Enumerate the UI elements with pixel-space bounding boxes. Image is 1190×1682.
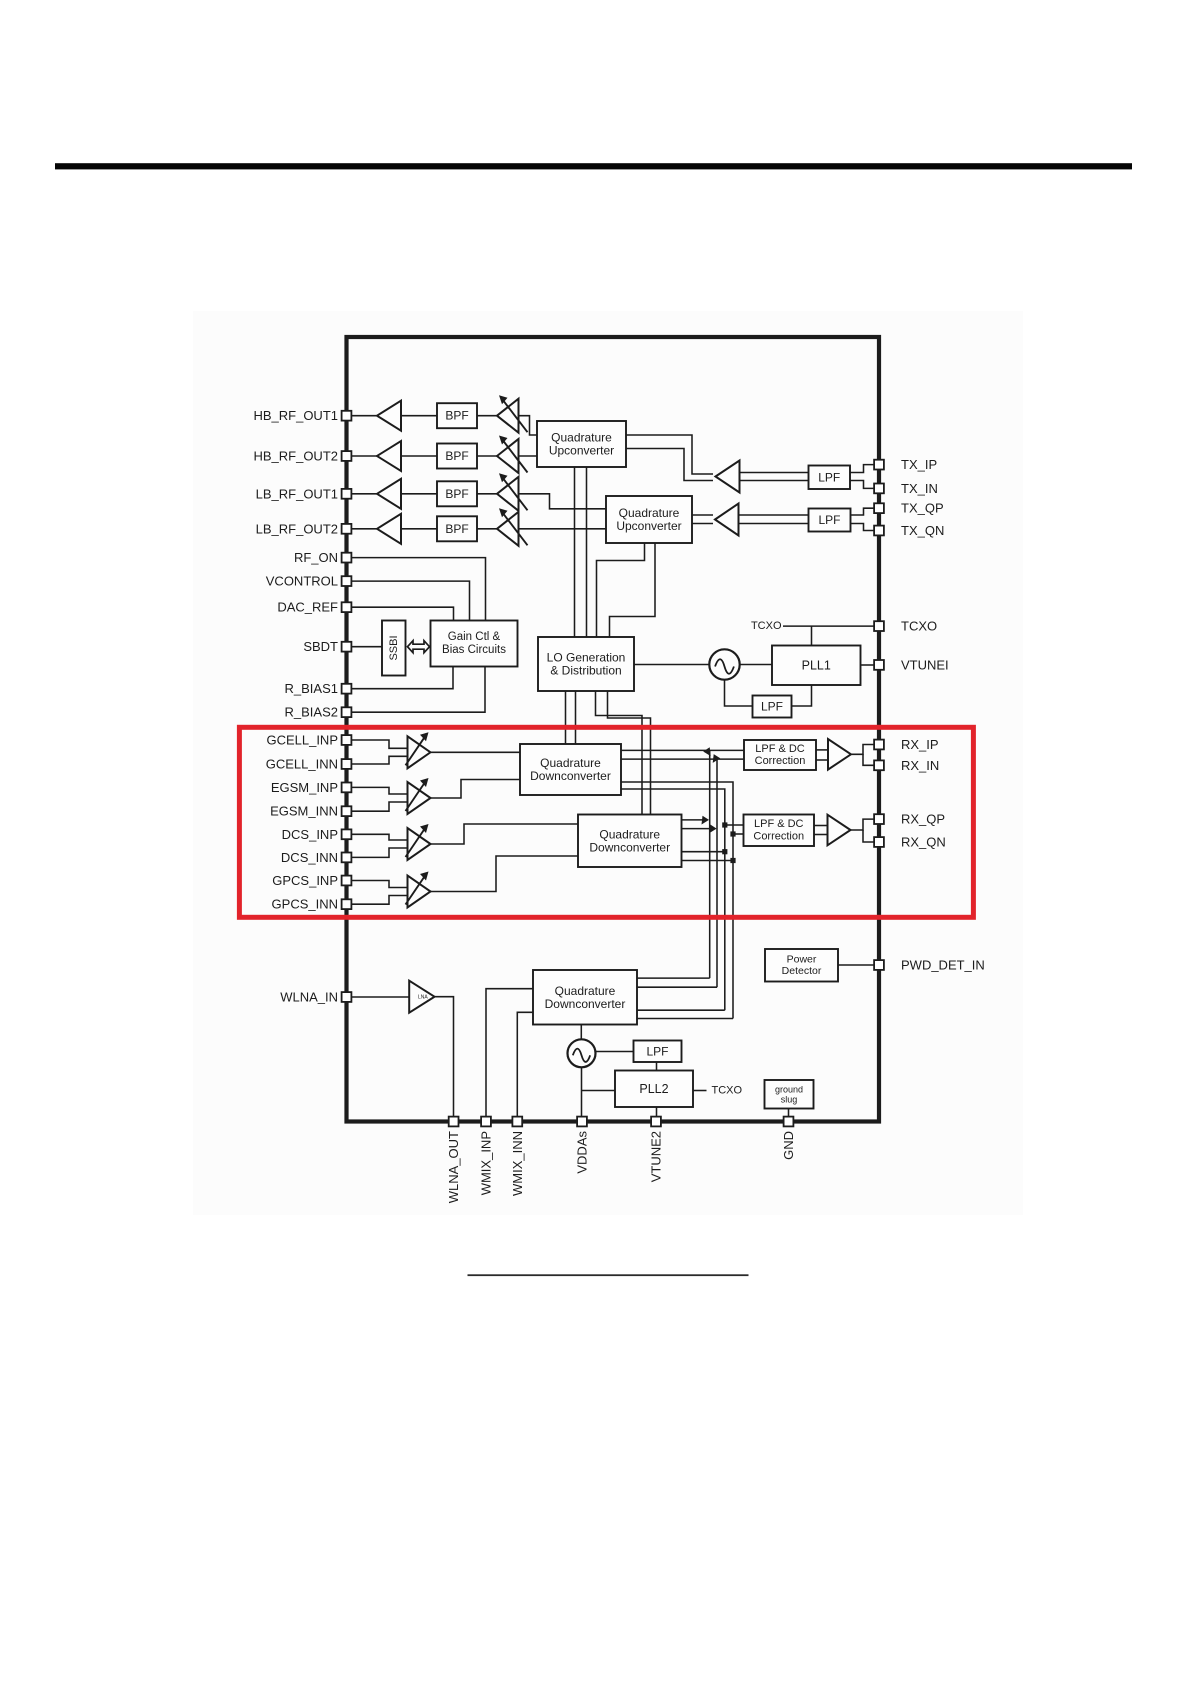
PA amplifier HB_RF_OUT2 bbox=[377, 441, 401, 471]
svg-text:Quadrature: Quadrature bbox=[555, 984, 616, 998]
svg-text:GPCS_INN: GPCS_INN bbox=[272, 897, 338, 912]
variable gain amp HB_RF_OUT2 bbox=[497, 436, 528, 474]
PA amplifier LB_RF_OUT1 bbox=[377, 479, 401, 509]
svg-text:Downconverter: Downconverter bbox=[530, 769, 611, 783]
svg-text:Downconverter: Downconverter bbox=[589, 840, 670, 854]
wire VCO2 to VDDAs pin line bbox=[581, 1068, 583, 1120]
wire R_BIAS2 to gain block bbox=[347, 667, 486, 713]
svg-text:BPF: BPF bbox=[445, 449, 468, 463]
BPF filter LB_RF_OUT2 bbox=[437, 516, 477, 541]
wire GCELL_INP to LNA bbox=[347, 740, 408, 748]
svg-text:R_BIAS2: R_BIAS2 bbox=[285, 705, 338, 720]
wire HB_RF_OUT1 VGA to upconverter1 bbox=[519, 416, 538, 435]
svg-text:LPF: LPF bbox=[818, 470, 840, 484]
svg-text:DAC_REF: DAC_REF bbox=[277, 600, 338, 615]
svg-text:Upconverter: Upconverter bbox=[616, 519, 681, 533]
svg-text:SSBI: SSBI bbox=[388, 635, 400, 660]
wire LB_RF_OUT1 VGA to upconverter2 bbox=[519, 494, 607, 509]
svg-text:Quadrature: Quadrature bbox=[540, 756, 601, 770]
wire WLAN LPF to PLL2 bbox=[656, 1062, 658, 1071]
WLAN LNA amplifier bbox=[409, 981, 434, 1013]
pin TX_QN bbox=[874, 526, 884, 536]
wire RF_ON to gain block bbox=[347, 558, 486, 621]
quadrature downconverter D3 (WLAN) bbox=[533, 970, 637, 1025]
wire downconverter3 out4 to bus V4 bbox=[637, 1018, 733, 1020]
svg-text:Quadrature: Quadrature bbox=[619, 506, 680, 520]
PLL1 loop LPF bbox=[753, 696, 792, 718]
wire downconverter2 Q- to bus V4 bbox=[682, 860, 734, 862]
svg-text:DCS_INN: DCS_INN bbox=[281, 850, 338, 865]
pin GCELL_INN bbox=[342, 759, 352, 769]
wire HB_RF_OUT2 pin to PA bbox=[347, 455, 378, 457]
wire loop LPF to VCO1 bbox=[725, 680, 753, 706]
wire GPCS_INP to LNA bbox=[347, 881, 408, 888]
svg-text:slug: slug bbox=[781, 1094, 798, 1104]
svg-text:WLNA_IN: WLNA_IN bbox=[280, 990, 338, 1005]
svg-text:EGSM_INN: EGSM_INN bbox=[270, 804, 338, 819]
pin RX_QN bbox=[874, 837, 884, 847]
svg-text:Downconverter: Downconverter bbox=[545, 997, 626, 1011]
PA amplifier LB_RF_OUT2 bbox=[377, 514, 401, 544]
svg-text:WMIX_INN: WMIX_INN bbox=[510, 1131, 525, 1196]
wire DAC_REF to gain block bbox=[347, 607, 454, 620]
svg-text:HB_RF_OUT1: HB_RF_OUT1 bbox=[253, 408, 338, 423]
variable gain amp LB_RF_OUT1 bbox=[497, 473, 528, 511]
svg-text:LPF & DC: LPF & DC bbox=[754, 818, 804, 830]
pin TX_IN bbox=[874, 484, 884, 494]
ground slug bbox=[765, 1080, 814, 1109]
LPF TX Q bbox=[809, 509, 851, 532]
pin HB_RF_OUT1 bbox=[342, 411, 352, 421]
VCO oscillator 2 bbox=[568, 1039, 596, 1067]
svg-text:WMIX_INP: WMIX_INP bbox=[479, 1131, 494, 1195]
wire SBDT to SSBI bbox=[347, 646, 383, 648]
wire downconverter1 Q+ onto bus V4 bbox=[621, 782, 733, 1019]
junction arrow bus V1 top bbox=[703, 747, 711, 756]
junction arrow bus V2 top bbox=[713, 754, 721, 763]
svg-text:TX_IP: TX_IP bbox=[901, 457, 937, 472]
pin WLNA_IN bbox=[342, 992, 352, 1002]
wire RX I amp to RX_IN pin bbox=[863, 754, 874, 765]
svg-text:Quadrature: Quadrature bbox=[599, 827, 660, 841]
wire DCS_INP to LNA bbox=[347, 834, 408, 840]
PA amplifier HB_RF_OUT1 bbox=[377, 401, 401, 431]
svg-text:PLL1: PLL1 bbox=[802, 658, 831, 672]
svg-text:Correction: Correction bbox=[755, 755, 806, 767]
wire bus V4 tap to LPF/DC 2 bbox=[733, 833, 744, 835]
wire LO to upconverter2 a bbox=[597, 543, 645, 637]
wire LPF/DC1 to RX I amp + bbox=[816, 749, 828, 751]
svg-text:LB_RF_OUT2: LB_RF_OUT2 bbox=[256, 521, 338, 536]
junction D2 Q+ join bbox=[722, 849, 727, 854]
wire upconverter2 input Q- bbox=[692, 523, 713, 525]
pin GCELL_INP bbox=[342, 735, 352, 745]
wire LO to downconverter2 a bbox=[596, 691, 643, 815]
wire PLL2 to TCXO label bbox=[693, 1090, 707, 1092]
svg-text:RF_ON: RF_ON bbox=[294, 550, 338, 565]
wire VCO2 to WLAN LPF bbox=[596, 1051, 634, 1053]
wire LO to downconverter1 a bbox=[565, 691, 567, 744]
pin RX_QP bbox=[874, 814, 884, 824]
pin R_BIAS1 bbox=[342, 684, 352, 694]
svg-text:Upconverter: Upconverter bbox=[549, 444, 614, 458]
pin WMIX_INN bbox=[512, 1117, 522, 1127]
PLL2 block bbox=[615, 1071, 693, 1108]
figure caption underline bbox=[468, 1274, 749, 1276]
svg-text:LO Generation: LO Generation bbox=[547, 651, 626, 665]
wire EGSM LNA to downconverter1 bbox=[431, 780, 521, 799]
svg-text:LPF: LPF bbox=[818, 513, 840, 527]
wire HB_RF_OUT1 BPF to VGA bbox=[477, 415, 497, 417]
SSBI block bbox=[382, 621, 406, 676]
wire WMIX_INN to downconverter3 bbox=[517, 1012, 533, 1119]
wire WLAN I- bus V2 bbox=[716, 759, 718, 987]
pin GND bbox=[784, 1117, 794, 1127]
pin TX_QP bbox=[874, 503, 884, 513]
variable gain amp LB_RF_OUT2 bbox=[497, 508, 528, 546]
LPF TX I bbox=[809, 466, 851, 490]
svg-text:HB_RF_OUT2: HB_RF_OUT2 bbox=[253, 449, 338, 464]
wire RX Q amp to RX_QN pin bbox=[863, 830, 874, 842]
wire bus V3 tap to LPF/DC 2 bbox=[725, 824, 744, 826]
LPF and DC correction block Q bbox=[744, 815, 815, 847]
wire TX_QN pin to LPF bbox=[851, 524, 874, 531]
PLL2 loop LPF bbox=[634, 1041, 682, 1063]
chip outline bbox=[347, 337, 880, 1122]
svg-text:RX_QN: RX_QN bbox=[901, 835, 946, 850]
pin RF_ON bbox=[342, 553, 352, 563]
quadrature downconverter D1 (GSM) bbox=[520, 744, 621, 795]
wire GCELL_INN to LNA bbox=[347, 756, 408, 764]
svg-text:RX_IP: RX_IP bbox=[901, 737, 939, 752]
wire GPCS_INN to LNA bbox=[347, 896, 408, 905]
wire LO to upconverter1 b bbox=[586, 467, 588, 637]
pin DCS_INN bbox=[342, 853, 352, 863]
svg-text:SBDT: SBDT bbox=[303, 639, 338, 654]
svg-text:GCELL_INP: GCELL_INP bbox=[266, 733, 338, 748]
pin VTUNE2 bbox=[651, 1117, 661, 1127]
svg-text:Detector: Detector bbox=[782, 965, 822, 977]
svg-text:BPF: BPF bbox=[445, 409, 468, 423]
svg-text:RX_IN: RX_IN bbox=[901, 758, 939, 773]
wire LO block to VCO1 bbox=[634, 664, 710, 666]
power detector block bbox=[765, 949, 838, 982]
svg-text:PWD_DET_IN: PWD_DET_IN bbox=[901, 958, 985, 973]
TX I input amplifier bbox=[716, 461, 740, 493]
svg-text:Bias Circuits: Bias Circuits bbox=[442, 644, 506, 656]
red highlight rectangle over RX section bbox=[239, 727, 973, 917]
wire HB_RF_OUT1 pin to PA bbox=[347, 415, 378, 417]
pin VCONTROL bbox=[342, 576, 352, 586]
wire upconverter1 input I+ bbox=[626, 435, 713, 474]
wire TX_QP pin to LPF bbox=[851, 508, 874, 515]
svg-text:& Distribution: & Distribution bbox=[550, 664, 621, 678]
wire HB_RF_OUT2 PA to BPF bbox=[401, 455, 437, 457]
svg-text:PLL2: PLL2 bbox=[639, 1082, 668, 1096]
pin WMIX_INP bbox=[481, 1117, 491, 1127]
svg-text:TCXO: TCXO bbox=[751, 620, 782, 632]
svg-text:TCXO: TCXO bbox=[901, 619, 937, 634]
PLL1 block bbox=[772, 646, 861, 686]
svg-text:GPCS_INP: GPCS_INP bbox=[272, 873, 338, 888]
BPF filter LB_RF_OUT1 bbox=[437, 481, 477, 506]
wire LO to downconverter2 b bbox=[608, 691, 651, 815]
wire VCO2 line to PLL2 bbox=[582, 1090, 616, 1092]
wire LB_RF_OUT2 BPF to VGA bbox=[477, 528, 497, 530]
svg-text:TX_QN: TX_QN bbox=[901, 523, 944, 538]
svg-text:Correction: Correction bbox=[753, 830, 804, 842]
wire LO to upconverter2 b bbox=[610, 543, 656, 637]
wire downconverter1 Q- onto bus V3 bbox=[621, 789, 725, 1010]
pin TX_IP bbox=[874, 460, 884, 470]
pin EGSM_INP bbox=[342, 783, 352, 793]
wire PLL2 to VTUNE2 pin bbox=[656, 1107, 658, 1120]
wire LPF/DC2 to RX Q amp - bbox=[814, 834, 828, 836]
wire EGSM_INN to LNA bbox=[347, 802, 408, 811]
svg-text:TCXO: TCXO bbox=[712, 1085, 743, 1097]
svg-text:VCONTROL: VCONTROL bbox=[266, 574, 338, 589]
wire PLL1 to VTUNE1 pin bbox=[861, 664, 874, 666]
wire TCXO to PLL1 top bbox=[811, 626, 813, 645]
svg-text:LPF: LPF bbox=[646, 1044, 668, 1058]
wire downconverter3 out2 to bus V2 bbox=[637, 986, 717, 988]
pin SBDT bbox=[342, 642, 352, 652]
svg-text:LPF: LPF bbox=[761, 700, 783, 714]
LNA GPCS bbox=[406, 872, 431, 908]
wire downconverter2 I- to bus V2 bbox=[682, 828, 715, 830]
wire LB_RF_OUT1 pin to PA bbox=[347, 493, 378, 495]
svg-text:LNA: LNA bbox=[418, 995, 428, 1001]
wire DCS_INN to LNA bbox=[347, 848, 408, 857]
LNA EGSM bbox=[406, 778, 431, 814]
wire TX_IN pin to LPF bbox=[850, 481, 874, 489]
VCO oscillator 1 bbox=[709, 649, 739, 679]
svg-text:RX_QP: RX_QP bbox=[901, 812, 945, 827]
svg-text:ground: ground bbox=[775, 1084, 803, 1094]
pin RX_IP bbox=[874, 740, 884, 750]
wire WLAN I+ bus V1 bbox=[709, 750, 711, 978]
variable gain amp HB_RF_OUT1 bbox=[497, 395, 528, 433]
wire downconverter3 to VCO2 bbox=[580, 1025, 582, 1040]
quadrature upconverter U1 (high band) bbox=[537, 421, 626, 467]
wire downconverter1 I+ to LPF/DC 1 bbox=[621, 749, 744, 751]
wire HB_RF_OUT2 VGA to upconverter1 bbox=[519, 455, 538, 457]
wire VCO1 to PLL1 bbox=[740, 664, 772, 666]
svg-text:LPF & DC: LPF & DC bbox=[755, 743, 805, 755]
wire LB_RF_OUT2 PA to BPF bbox=[401, 528, 437, 530]
wire GPCS LNA to downconverter2 bbox=[431, 856, 579, 892]
pin LB_RF_OUT2 bbox=[342, 524, 352, 534]
wire downconverter1 I- to LPF/DC 1 bbox=[621, 758, 744, 760]
svg-text:GND: GND bbox=[781, 1131, 796, 1160]
wire LPF/DC1 to RX I amp - bbox=[816, 759, 828, 761]
svg-text:LB_RF_OUT1: LB_RF_OUT1 bbox=[256, 486, 338, 501]
svg-text:VDDAs: VDDAs bbox=[575, 1131, 590, 1174]
wire RX Q amp to RX_QP pin bbox=[851, 819, 874, 830]
junction V4 tap bbox=[730, 831, 735, 836]
diagram grey panel bbox=[193, 311, 1023, 1215]
wire LPF/DC2 to RX Q amp + bbox=[814, 825, 828, 827]
pin DAC_REF bbox=[342, 602, 352, 612]
pin PWD_DET_IN bbox=[874, 960, 884, 970]
pin RX_IN bbox=[874, 760, 884, 770]
svg-text:VTUNE2: VTUNE2 bbox=[649, 1131, 664, 1182]
wire GCELL LNA to downconverter1 bbox=[431, 751, 521, 753]
svg-text:R_BIAS1: R_BIAS1 bbox=[285, 681, 338, 696]
gain control and bias circuits block bbox=[431, 621, 518, 667]
pin VDDAs bbox=[577, 1117, 587, 1127]
wire WLNA_IN to LNA bbox=[347, 996, 410, 998]
wire RX I amp to RX_IP pin bbox=[851, 745, 874, 755]
wire TX_IP pin to LPF bbox=[850, 465, 874, 473]
pin EGSM_INN bbox=[342, 806, 352, 816]
wire DCS LNA to downconverter2 bbox=[431, 824, 579, 844]
svg-text:VTUNEI: VTUNEI bbox=[901, 657, 949, 672]
wire upconverter2 input Q+ bbox=[692, 514, 713, 516]
wire HB_RF_OUT2 BPF to VGA bbox=[477, 455, 497, 457]
wire WLAN LNA to WLNA_OUT pin bbox=[435, 997, 454, 1120]
wire LO to downconverter1 b bbox=[575, 691, 577, 744]
wire VCONTROL to gain block bbox=[347, 581, 470, 620]
svg-text:Gain Ctl &: Gain Ctl & bbox=[448, 631, 501, 643]
LNA GCELL bbox=[406, 732, 431, 768]
svg-text:WLNA_OUT: WLNA_OUT bbox=[446, 1131, 461, 1203]
wire downconverter2 Q+ to bus V3 bbox=[682, 851, 725, 853]
wire upconverter1 input I- bbox=[626, 449, 713, 481]
wire downconverter3 out1 to bus V1 bbox=[637, 977, 710, 979]
pin HB_RF_OUT2 bbox=[342, 451, 352, 461]
svg-text:BPF: BPF bbox=[445, 487, 468, 501]
wire TX Q amp to LPF + bbox=[739, 514, 809, 516]
junction arrow D2 I+ join bbox=[702, 816, 710, 825]
pin GPCS_INN bbox=[342, 899, 352, 909]
wire LB_RF_OUT2 pin to PA bbox=[347, 528, 378, 530]
quadrature upconverter U2 (low band) bbox=[606, 496, 692, 543]
pin TCXO bbox=[874, 621, 884, 631]
wire LB_RF_OUT1 BPF to VGA bbox=[477, 493, 497, 495]
wire power detector to PWD_DET_IN pin bbox=[838, 964, 874, 966]
BPF filter HB_RF_OUT2 bbox=[437, 444, 477, 469]
LO generation and distribution block bbox=[538, 637, 634, 691]
wire TX I amp to LPF + bbox=[740, 472, 809, 474]
quadrature downconverter D2 (DCS/PCS) bbox=[578, 815, 682, 868]
svg-text:TX_IN: TX_IN bbox=[901, 481, 938, 496]
pin VTUNEI bbox=[874, 660, 884, 670]
pin WLNA_OUT bbox=[449, 1117, 459, 1127]
svg-text:EGSM_INP: EGSM_INP bbox=[271, 780, 338, 795]
svg-text:BPF: BPF bbox=[445, 522, 468, 536]
wire TX I amp to LPF - bbox=[740, 480, 809, 482]
wire TX Q amp to LPF - bbox=[739, 523, 809, 525]
wire TCXO label to TCXO pin bbox=[783, 625, 874, 627]
wire R_BIAS1 to gain block bbox=[347, 667, 454, 689]
TX Q input amplifier bbox=[715, 504, 739, 536]
RX Q output buffer bbox=[828, 815, 851, 846]
svg-text:Power: Power bbox=[787, 954, 817, 966]
RX I output buffer bbox=[828, 739, 851, 770]
junction D2 Q- join bbox=[730, 858, 735, 863]
wire downconverter3 out3 to bus V3 bbox=[637, 1009, 725, 1011]
pin DCS_INP bbox=[342, 829, 352, 839]
pin LB_RF_OUT1 bbox=[342, 489, 352, 499]
wire LB_RF_OUT1 PA to BPF bbox=[401, 493, 437, 495]
svg-text:GCELL_INN: GCELL_INN bbox=[266, 757, 338, 772]
wire downconverter2 I+ to bus V1 bbox=[682, 819, 708, 821]
junction V3 tap bbox=[722, 822, 727, 827]
page top rule bbox=[55, 163, 1132, 169]
svg-text:TX_QP: TX_QP bbox=[901, 501, 944, 516]
wire EGSM_INP to LNA bbox=[347, 787, 408, 794]
svg-text:Quadrature: Quadrature bbox=[551, 431, 612, 445]
BPF filter HB_RF_OUT1 bbox=[437, 403, 477, 428]
wire PLL1 to loop LPF bbox=[792, 685, 812, 706]
wire LB_RF_OUT2 VGA to upconverter2 bbox=[519, 528, 607, 530]
wire HB_RF_OUT1 PA to BPF bbox=[401, 415, 437, 417]
LNA DCS bbox=[406, 824, 431, 860]
pin R_BIAS2 bbox=[342, 707, 352, 717]
pin GPCS_INP bbox=[342, 876, 352, 886]
wire ground slug to GND pin bbox=[788, 1109, 790, 1120]
svg-text:DCS_INP: DCS_INP bbox=[282, 827, 338, 842]
wire LO to upconverter1 a bbox=[574, 467, 576, 637]
junction arrow D2 I- join bbox=[709, 824, 717, 833]
LPF and DC correction block I bbox=[744, 740, 816, 770]
SSBI bidirectional arrow bbox=[408, 641, 430, 653]
wire WMIX_INP to downconverter3 bbox=[486, 989, 533, 1120]
